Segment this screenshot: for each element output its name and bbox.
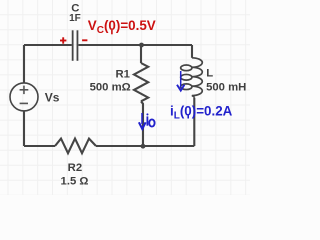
svg-text:L: L — [206, 67, 213, 79]
svg-text:500 mH: 500 mH — [206, 81, 246, 93]
svg-text:1.5 Ω: 1.5 Ω — [61, 175, 89, 187]
svg-text:Vs: Vs — [45, 91, 60, 105]
svg-text:1F: 1F — [69, 13, 81, 24]
svg-text:500 mΩ: 500 mΩ — [90, 81, 131, 93]
svg-text:R2: R2 — [68, 162, 82, 174]
svg-text:R1: R1 — [116, 68, 130, 80]
